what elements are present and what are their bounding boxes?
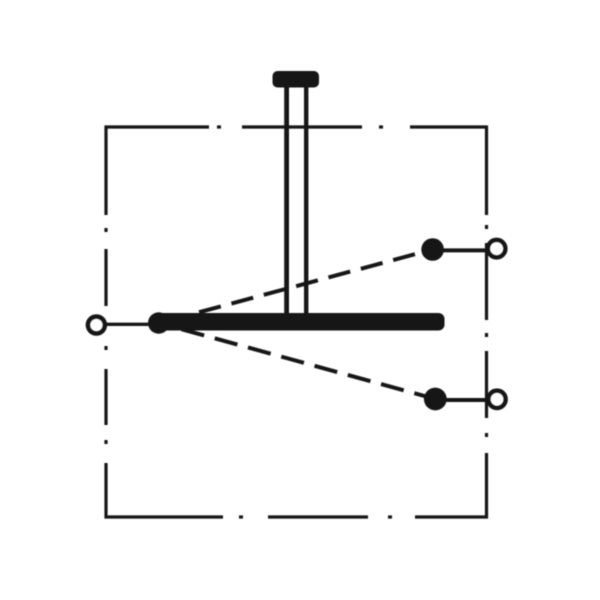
left terminal circle xyxy=(88,317,105,334)
contact bar (moving contact) xyxy=(156,313,445,331)
enclosure dash-dot box: bottom border xyxy=(105,515,489,518)
dashed travel line to upper contact xyxy=(159,250,433,324)
dashed travel line to lower contact xyxy=(159,323,435,399)
actuator shaft right line xyxy=(304,85,308,317)
upper terminal circle xyxy=(488,240,505,257)
pivot dot xyxy=(148,312,169,333)
actuator cap xyxy=(273,71,320,88)
actuator shaft left line xyxy=(284,85,289,317)
enclosure dash-dot box: right border xyxy=(485,126,488,519)
enclosure dash-dot box: top border xyxy=(105,125,488,128)
left terminal lead wire xyxy=(107,323,151,326)
enclosure dash-dot box: left border xyxy=(104,126,107,519)
upper terminal lead wire xyxy=(443,248,489,252)
lower terminal circle xyxy=(488,391,505,408)
lower terminal lead wire xyxy=(446,398,489,402)
lower contact dot xyxy=(424,388,447,411)
upper contact dot xyxy=(421,238,444,261)
